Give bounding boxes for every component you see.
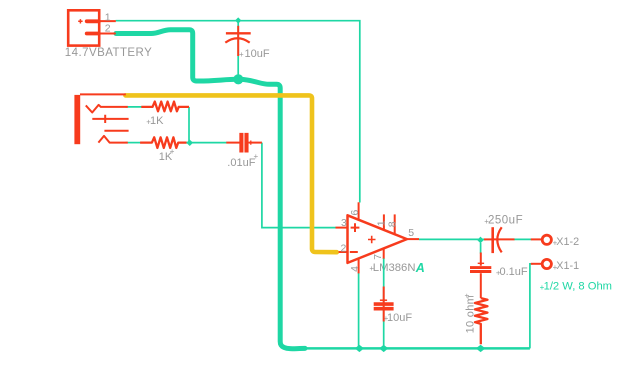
svg-text:X1-2: X1-2 [556, 236, 579, 248]
svg-text:0.1uF: 0.1uF [500, 266, 528, 278]
svg-text:10uF: 10uF [245, 48, 270, 60]
svg-text:+: + [170, 147, 175, 156]
svg-text:10uF: 10uF [387, 312, 412, 324]
svg-text:10 ohm: 10 ohm [465, 295, 477, 334]
svg-text:6: 6 [349, 210, 361, 216]
svg-text:X1-1: X1-1 [556, 260, 579, 272]
svg-text:2: 2 [105, 23, 111, 35]
svg-text:1: 1 [375, 220, 387, 226]
svg-text:5: 5 [408, 227, 414, 239]
svg-text:3: 3 [341, 217, 347, 229]
svg-text:250uF: 250uF [488, 215, 523, 227]
svg-text:A: A [415, 261, 425, 275]
svg-text:+: + [254, 152, 259, 161]
svg-text:.01uF: .01uF [227, 157, 255, 169]
svg-text:14.7VBATTERY: 14.7VBATTERY [65, 47, 152, 59]
svg-text:1: 1 [105, 11, 111, 23]
svg-text:1/2 W, 8 Ohm: 1/2 W, 8 Ohm [544, 281, 612, 293]
svg-text:8: 8 [387, 221, 399, 227]
svg-text:LM386N: LM386N [373, 262, 416, 274]
svg-text:2: 2 [341, 243, 347, 255]
svg-text:1K: 1K [150, 115, 164, 127]
svg-text:+: + [462, 293, 471, 298]
svg-text:+: + [239, 50, 244, 59]
svg-text:7: 7 [372, 254, 384, 260]
svg-text:4: 4 [349, 266, 361, 272]
